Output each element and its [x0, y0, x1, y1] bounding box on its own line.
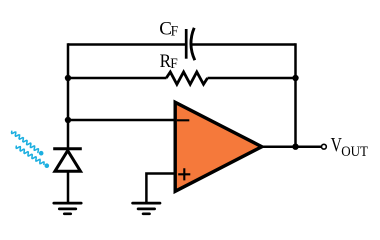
wire inverting input	[68, 119, 174, 122]
wire capacitor to top-right corner	[192, 43, 296, 46]
svg-text:OUT: OUT	[341, 144, 368, 160]
ground at non-inverting input	[133, 203, 160, 214]
op-amp minus sign	[177, 119, 189, 121]
wire resistor branch right lead	[208, 77, 296, 80]
photodiode D1 cathode bar	[53, 147, 82, 150]
node junction dot right-resistor	[292, 75, 298, 81]
output terminal circle	[322, 144, 327, 149]
op-amp U1 body	[175, 102, 262, 191]
node junction dot left-resistor	[65, 75, 71, 81]
svg-text:F: F	[171, 23, 179, 40]
capacitor CF straight plate	[185, 29, 188, 59]
resistor RF zigzag	[166, 72, 207, 84]
light arrow 2	[16, 146, 44, 164]
node junction dot output	[292, 144, 298, 150]
wire non-inverting input to ground	[146, 174, 174, 203]
wire top-left corner to capacitor (feedback cap branch)	[68, 43, 186, 46]
svg-text:V: V	[331, 133, 342, 155]
wire right vertical rail	[294, 43, 297, 146]
wire photodiode anode to ground	[67, 171, 70, 202]
wire left vertical rail	[67, 43, 70, 149]
light arrow 1	[12, 131, 39, 152]
ground under photodiode	[54, 203, 81, 214]
wire op-amp output to terminal	[261, 145, 321, 148]
wire resistor branch left lead	[68, 77, 167, 80]
photodiode D1 triangle	[55, 151, 81, 172]
light arrow 2 head dot	[45, 163, 50, 168]
capacitor CF curved plate	[191, 28, 195, 60]
node junction dot left-inverting	[65, 117, 71, 123]
light arrow 1 head dot	[39, 151, 44, 156]
svg-text:F: F	[170, 55, 178, 72]
op-amp plus sign	[178, 168, 190, 180]
